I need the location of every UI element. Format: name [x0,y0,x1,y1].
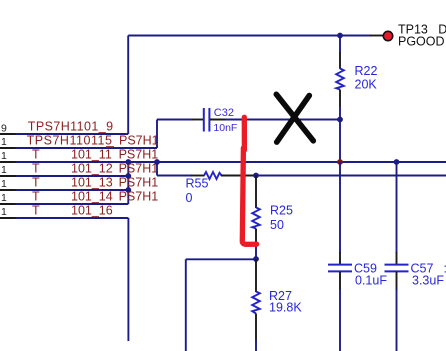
resistor R27 [252,292,260,314]
pin R55 right [221,175,256,177]
svg-text:1: 1 [1,164,7,176]
wire bus vertical [127,162,129,204]
wire row2 [16,147,158,149]
wire R27 bottom [255,340,257,351]
wire row1 [16,133,129,135]
pin C57 top [396,252,398,264]
resistor R25 [252,208,260,229]
pin stubs left [0,134,17,218]
pin numbers [1,122,7,218]
node bus row5 [125,187,131,193]
svg-text:PS7H1: PS7H1 [119,162,159,176]
svg-text:C32: C32 [214,107,234,119]
testpoint TP13 [383,31,392,40]
node bus row4 [125,173,131,179]
label row7 [32,204,113,218]
pin R22 top [339,52,341,69]
wire row4 [16,175,129,177]
svg-text:101_11: 101_11 [71,148,112,162]
node R25 bottom [253,256,259,262]
pin R55 left [191,175,205,177]
pin C32 left [192,119,203,121]
wire C59 branch [339,162,341,253]
svg-text:20K: 20K [355,78,378,92]
node bus row3 [125,159,131,165]
label row6 [32,190,158,204]
svg-text:PS7H1: PS7H1 [119,148,159,162]
svg-text:1: 1 [1,192,7,204]
pin C59 bottom [339,272,341,291]
wire R22 branch [339,36,341,53]
node R55 junction [253,173,259,179]
pin R27 bottom [255,314,257,342]
svg-text:R25: R25 [270,204,293,218]
svg-text:101_13: 101_13 [71,176,113,190]
wire C32 right [226,119,340,121]
resistor R22 [336,69,344,90]
node row3 x157 [154,159,160,165]
wire feedback left [186,259,256,351]
svg-text:T: T [32,190,40,204]
wire R55 left [157,175,192,177]
label row3 [32,148,158,162]
svg-text:3.3uF: 3.3uF [412,274,444,288]
node junction top [337,33,343,39]
wire C57 bottom [396,289,398,351]
svg-text:1: 1 [1,136,7,148]
pin R25 bottom [255,229,257,245]
svg-text:9: 9 [1,122,7,134]
svg-text:50: 50 [270,218,284,232]
svg-text:R22: R22 [355,64,378,78]
svg-text:0: 0 [186,191,193,205]
svg-text:T: T [32,162,40,176]
wire PGOOD top [128,36,371,135]
wire C57 branch [396,162,398,253]
annotation X mark [276,94,313,142]
svg-text:10nF: 10nF [213,122,237,134]
testpoint TP13 pin [370,35,383,37]
wire row6 [16,203,129,205]
pin C59 top [339,252,341,264]
pin C57 bottom [396,272,398,291]
label row4 [32,162,158,176]
label row5 [32,176,158,190]
wire R22 to C32 node [339,107,341,163]
wire row3 [16,161,446,163]
svg-text:19.8K: 19.8K [269,301,302,315]
svg-text:PGOOD: PGOOD [398,34,445,48]
svg-text:0.1uF: 0.1uF [355,274,387,288]
svg-text:PS7H1: PS7H1 [119,134,159,148]
svg-text:R55: R55 [186,177,209,191]
pin R22 bottom [339,90,341,108]
capacitor C57 [385,265,409,272]
pin C32 right [210,119,227,121]
svg-text:TPS7H110115: TPS7H110115 [27,134,113,148]
wire row3 to R55 row [156,162,158,176]
wire R55 row right [256,175,446,177]
svg-text:T: T [32,176,40,190]
wire C32 left [157,119,193,121]
svg-text:1: 1 [1,206,7,218]
svg-text:PS7H1: PS7H1 [119,176,159,190]
annotation red strike [242,117,256,244]
capacitor C59 [328,265,352,272]
svg-text:101_16: 101_16 [71,204,113,218]
pin R27 top [255,259,257,292]
wire row7 down [127,218,129,341]
svg-text:T: T [32,204,40,218]
node C32 junction [337,117,343,123]
svg-text:101_14: 101_14 [71,190,113,204]
capacitor C32 [204,108,210,132]
pin R25 top [255,176,257,209]
node C59 top (dark red) [337,159,343,165]
svg-text:TPS7H1101_9: TPS7H1101_9 [28,120,114,134]
resistor R55 [204,172,222,179]
svg-text:1: 1 [1,150,7,162]
wire row5 [16,189,129,191]
svg-text:T: T [32,148,40,162]
wire C59 bottom [339,289,341,351]
svg-text:1: 1 [1,178,7,190]
svg-text:101_12: 101_12 [71,162,113,176]
wire row7 [16,217,129,219]
node C57 top [394,159,400,165]
svg-text:PS7H1: PS7H1 [119,190,159,204]
